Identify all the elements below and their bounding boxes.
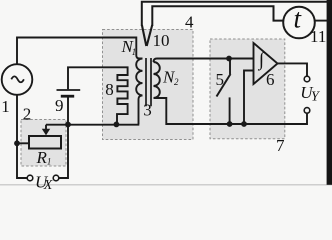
svg-text:1: 1 <box>132 47 137 57</box>
svg-text:8: 8 <box>105 80 114 99</box>
svg-text:2: 2 <box>174 77 179 87</box>
svg-text:6: 6 <box>266 70 275 89</box>
svg-text:5: 5 <box>216 70 225 89</box>
svg-text:4: 4 <box>185 13 194 32</box>
svg-text:10: 10 <box>153 31 170 50</box>
svg-text:11: 11 <box>310 27 326 46</box>
svg-text:7: 7 <box>276 136 285 155</box>
svg-text:9: 9 <box>55 96 64 115</box>
svg-text:R: R <box>36 148 48 167</box>
svg-text:3: 3 <box>143 100 152 119</box>
svg-text:X: X <box>43 178 53 191</box>
svg-text:1: 1 <box>47 156 52 166</box>
svg-text:2: 2 <box>23 105 32 124</box>
svg-text:1: 1 <box>1 97 10 116</box>
